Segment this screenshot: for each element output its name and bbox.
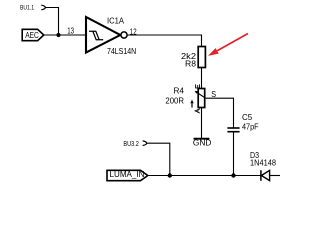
junction dot node AEC [56,33,60,37]
trimmer resistor R4 body [198,89,205,108]
red annotation arrow shaft [217,34,248,51]
wire LUMA_IN to diode [148,175,261,177]
red annotation arrowhead [208,48,219,56]
pin name E (rotated) [195,84,200,88]
svg-text:13: 13 [67,26,74,35]
wire R8 to trimmer [201,68,203,89]
wire wiper S to C5 [206,98,234,128]
wire BU1.1 to junction [45,8,58,36]
pin name A (rotated) [195,109,200,113]
connector pinhead BU3.2 [143,141,147,146]
diode D3 cathode bar [260,170,262,181]
svg-text:LUMA_IN: LUMA_IN [110,170,145,179]
svg-text:C5: C5 [242,113,253,122]
svg-text:R4: R4 [174,87,185,96]
wire diode to edge [270,175,280,177]
ground bar [194,138,210,140]
svg-text:74LS14N: 74LS14N [107,47,136,56]
connector pinhead BU1.1 [41,5,45,10]
svg-text:BU1.1: BU1.1 [20,5,34,12]
schmitt hysteresis symbol [89,31,103,40]
adjustment arrowhead [190,100,193,104]
trimmer wiper arrowhead [195,91,198,94]
svg-text:R8: R8 [185,59,197,68]
svg-text:47pF: 47pF [242,122,259,131]
svg-text:AEC: AEC [25,30,39,40]
junction dot C5 node [231,173,235,177]
wire C5 to bottom net [233,132,235,176]
svg-text:IC1A: IC1A [107,16,125,25]
svg-text:GND: GND [193,139,212,148]
junction dot BU3.2 node [168,173,172,177]
capacitor C5 plates [227,128,239,132]
svg-text:1N4148: 1N4148 [250,158,277,167]
wire trimmer to GND [201,108,203,139]
svg-text:200R: 200R [165,97,184,106]
resistor R8 body [198,47,205,68]
diode D3 triangle [261,170,269,180]
op-amp U1: inverter triangle IC1A [86,17,120,53]
wire AEC to inverter input [44,34,86,36]
inverter output bubble [121,32,127,38]
svg-text:BU3.2: BU3.2 [123,141,139,148]
net flag LUMA_IN [107,170,148,180]
trimmer wiper diagonal [196,92,205,98]
adjustment arrow shaft [191,102,193,108]
net flag AEC [22,29,44,40]
wire BU3.2 to bottom net [147,143,170,175]
wire inverter output to R8 [127,35,201,47]
